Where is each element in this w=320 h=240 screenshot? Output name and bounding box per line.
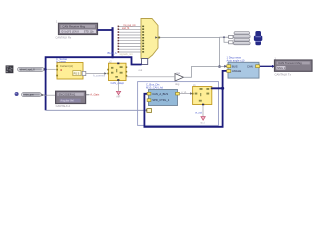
coil block (rate transition stack)	[233, 32, 250, 45]
svg-text:STD 11b: STD 11b	[84, 31, 94, 34]
svg-text:CAN_adapt: CAN_adapt	[111, 81, 125, 85]
svg-text:M10_CAN_hd: M10_CAN_hd	[146, 86, 163, 90]
connector blob (navy)	[254, 31, 262, 45]
svg-text:rotor_pos: rotor_pos	[24, 94, 35, 97]
svg-text:w_t: w_t	[201, 122, 205, 125]
port box S2 bottom (hanging)	[147, 109, 152, 113]
svg-text:AIR: AIR	[116, 95, 120, 98]
wire sel4	[118, 34, 142, 36]
svg-text:MSG 1: MSG 1	[277, 67, 285, 70]
svg-text:wheel_spd_fl: wheel_spd_fl	[20, 68, 35, 71]
svg-text:ANGLE: ANGLE	[232, 69, 241, 73]
svg-text:BUS: BUS	[232, 64, 238, 68]
arrow C2	[41, 94, 44, 97]
svg-text:w_out: w_out	[195, 111, 202, 114]
block B4 converter2 (yellow)	[192, 87, 213, 106]
block B3 encoder (gray)	[56, 91, 86, 103]
area box (annotation)	[138, 82, 219, 126]
svg-text:CAN_A_BUS: CAN_A_BUS	[152, 92, 168, 96]
svg-text:out: out	[139, 68, 143, 72]
arrow C1	[44, 68, 47, 71]
wire G1 in	[127, 76, 176, 78]
capsule C2	[22, 93, 42, 97]
svg-text:CANTALK Tx: CANTALK Tx	[275, 72, 292, 76]
wire to coils box1	[220, 36, 229, 38]
wire B3 out (unconnected)	[86, 94, 90, 96]
block B2 converter (yellow)	[107, 63, 127, 81]
bus branch up to S1 port2	[223, 71, 227, 88]
svg-text:ID 0x1F3 LEN 8: ID 0x1F3 LEN 8	[61, 31, 79, 34]
bus selector bar	[112, 27, 114, 58]
svg-text:spd_fb: spd_fb	[122, 27, 130, 30]
svg-text:Ga: Ga	[177, 71, 181, 75]
terminator T1 (pink arrow)	[116, 91, 120, 94]
svg-text:A_Gain: A_Gain	[90, 93, 99, 97]
wire jog to coils box2	[224, 37, 229, 42]
port box coil in1	[229, 35, 233, 38]
wire sel8	[118, 46, 142, 48]
svg-text:u_y1: u_y1	[181, 91, 187, 94]
node j2	[218, 65, 221, 68]
capsule C1	[18, 67, 44, 71]
svg-text:CANTALK Rx: CANTALK Rx	[56, 36, 72, 40]
wire G1 out up to j2	[184, 67, 220, 78]
bus main: right run to dip	[113, 57, 142, 64]
port box coil in2	[229, 41, 233, 44]
svg-text:ENCODER A1: ENCODER A1	[59, 92, 76, 96]
wire S1 out to U2	[260, 65, 273, 67]
wire sel9	[118, 48, 142, 50]
svg-text:A_meas: A_meas	[56, 60, 67, 64]
svg-text:signal1_nm: signal1_nm	[120, 52, 133, 56]
wire sel10	[118, 51, 142, 53]
mux M1 bus creator	[141, 19, 158, 59]
block S2 controller (steel blue)	[147, 90, 179, 106]
source icon I1 (pixel square)	[6, 65, 14, 73]
svg-text:CAN Transmit Msg: CAN Transmit Msg	[278, 61, 302, 65]
port box M1 bottom out	[142, 59, 148, 65]
svg-text:CAN: CAN	[247, 64, 253, 68]
node cross2	[44, 94, 46, 96]
svg-text:CAN Receive Msg: CAN Receive Msg	[63, 25, 86, 29]
svg-text:PS S: PS S	[74, 72, 80, 75]
wire B1 to B2	[86, 73, 105, 75]
source icon I2 (blue circle)	[15, 92, 19, 96]
wire S2 out to B4	[179, 93, 190, 95]
svg-text:Current (A): Current (A)	[60, 64, 73, 68]
svg-text:A_currents: A_currents	[93, 74, 106, 77]
wire into P1 blue block	[220, 66, 226, 68]
block U2 CAN Transmit (gray)	[275, 57, 313, 71]
node j4	[221, 87, 224, 90]
svg-text:SPD_CTRL_1: SPD_CTRL_1	[152, 98, 170, 102]
wire B4 down	[202, 105, 204, 116]
wire M1 right out	[159, 37, 220, 39]
wire left long to S2 port3	[46, 109, 147, 111]
svg-text:BUS_A: BUS_A	[108, 51, 117, 55]
block B1 sensor (yellow)	[56, 63, 83, 80]
svg-text:Angular Vel: Angular Vel	[60, 99, 74, 103]
svg-text:CANTALK A: CANTALK A	[56, 104, 71, 108]
wire sel3	[118, 31, 142, 33]
wire M1 down to subsystem	[219, 37, 221, 66]
wire sel2	[118, 28, 142, 30]
wire U1 out bus	[98, 29, 113, 31]
bus loop right/bottom/left	[144, 88, 222, 127]
bus main: U1 down-left run	[46, 57, 113, 110]
wire sel5	[118, 37, 142, 39]
wire sel1	[118, 26, 142, 28]
gain G1	[175, 71, 184, 86]
wire B2 down	[118, 81, 120, 91]
block U1 CAN Receive (gray)	[56, 20, 98, 34]
wire C1 to B1	[47, 68, 56, 70]
node cross1	[44, 68, 46, 70]
wire sel6	[118, 40, 142, 42]
port box B1 out	[82, 71, 86, 75]
wire C2 to B3	[44, 94, 55, 96]
subsystem S1 (blue)	[227, 62, 260, 78]
node j1	[223, 36, 225, 38]
terminator T2 (pink arrow)	[201, 117, 205, 121]
svg-text:deg: deg	[175, 82, 180, 86]
wire sel7	[118, 43, 142, 45]
